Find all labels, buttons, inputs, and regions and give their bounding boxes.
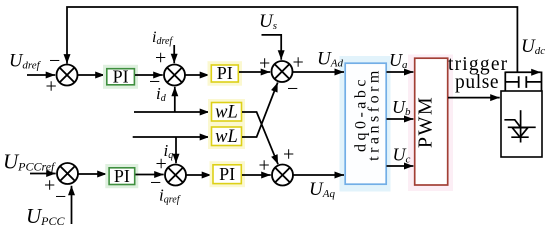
wire summer5 to PI4 xyxy=(186,174,211,176)
wire Ua xyxy=(387,71,414,73)
svg-text:PI: PI xyxy=(114,166,130,186)
wire Ub xyxy=(387,118,414,120)
wire PI1 to summer 2 xyxy=(135,74,163,76)
wire wL2 cross up to summer 3 xyxy=(242,83,278,138)
summer 5 (q-current) xyxy=(165,165,186,186)
svg-text:+: + xyxy=(293,52,304,74)
wL block 1 xyxy=(208,99,245,125)
PI block 3 (green) xyxy=(105,164,138,188)
wire iq current line xyxy=(133,136,210,138)
svg-text:PI: PI xyxy=(219,164,235,184)
wire UPCCref input xyxy=(30,173,56,175)
wire id tap up to summer 2 xyxy=(174,87,176,112)
summer 6 (UAq) xyxy=(272,165,293,186)
svg-text:wL: wL xyxy=(215,127,238,147)
wire id current line xyxy=(134,111,209,113)
wire top feedback Udc to summer 1 xyxy=(67,7,517,72)
svg-text:+: + xyxy=(259,155,270,177)
svg-text:transform: transform xyxy=(366,67,383,161)
dc link top line with arrow xyxy=(505,71,540,73)
svg-text:+: + xyxy=(283,144,294,166)
PI block 1 (green) xyxy=(103,65,138,89)
PI block 4 (yellow) xyxy=(210,161,246,187)
wire PWM to converter xyxy=(448,97,500,99)
dc link rails xyxy=(505,72,541,92)
converter valve symbol xyxy=(504,110,535,142)
wire PI2 to summer 3 xyxy=(239,71,270,73)
svg-text:+: + xyxy=(155,47,166,69)
svg-text:+: + xyxy=(44,175,55,197)
svg-text:wL: wL xyxy=(215,103,238,123)
wire Uc xyxy=(387,165,414,167)
svg-text:PI: PI xyxy=(217,63,233,83)
wire PI4 to summer 6 xyxy=(242,174,271,176)
PI block 2 (yellow) xyxy=(208,61,243,85)
wire summer2 to PI2 xyxy=(185,74,209,76)
wire iq tap down to summer 5 xyxy=(175,137,177,163)
wire PI3 to summer 5 xyxy=(136,174,164,176)
summer 4 (UPCC) xyxy=(57,163,78,184)
wire summer6 to dq0 box xyxy=(293,174,344,176)
svg-text:pulse: pulse xyxy=(455,72,499,93)
summer 2 (d-current) xyxy=(164,65,185,86)
svg-text:−: − xyxy=(49,50,60,72)
wire summer3 to dq0 box xyxy=(293,71,345,73)
svg-text:PWM: PWM xyxy=(415,96,437,148)
svg-text:−: − xyxy=(55,186,66,208)
svg-text:−: − xyxy=(287,78,298,100)
dq0-abc transform block xyxy=(340,56,391,192)
wire summer4 to PI3 xyxy=(78,173,107,175)
svg-text:+: + xyxy=(259,53,270,75)
wire wL1 cross down to summer 6 xyxy=(242,112,278,164)
converter box xyxy=(501,91,542,157)
wL block 2 xyxy=(208,124,245,150)
PWM block xyxy=(408,55,453,192)
summer 3 (UAd) xyxy=(272,61,293,82)
wire summer1 to PI1 xyxy=(78,74,105,76)
svg-text:+: + xyxy=(46,76,57,98)
wire Us into summer 3 xyxy=(262,35,282,60)
capacitor C dc xyxy=(505,81,541,83)
wire idref into summer 2 xyxy=(173,45,175,63)
svg-text:PI: PI xyxy=(113,66,129,86)
wire Udref input xyxy=(27,74,55,76)
summer 1 (Udref) xyxy=(57,65,78,86)
wire UPCC up into summer 4 xyxy=(71,186,73,224)
